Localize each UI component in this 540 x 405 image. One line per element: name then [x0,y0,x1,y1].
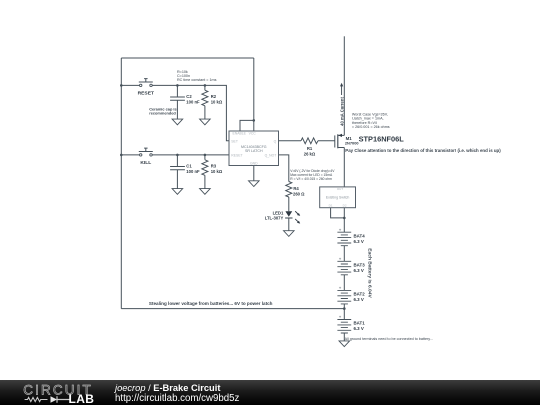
ground below U1 [249,181,260,187]
svg-text:R=10kC=100nRC time constant =: R=10kC=100nRC time constant = 1ms [177,70,217,82]
LED LED1 cathode bar [285,217,292,219]
resistor R4 [286,182,292,198]
svg-text:BAT26.3 V: BAT26.3 V [354,292,366,303]
svg-text:40 mA Current: 40 mA Current [339,97,344,126]
svg-text:KILL: KILL [140,160,151,166]
svg-text:LED1LTL-307Y: LED1LTL-307Y [265,210,284,220]
wire top rail of power-latch loop [121,57,254,59]
svg-text:C2100 nF: C2100 nF [186,94,200,105]
wire switch left pin jog [331,208,345,218]
node C2 tap [176,84,179,87]
wire left rail of power-latch loop [120,58,122,309]
battery BAT4 [337,232,351,246]
svg-text:R210 kΩ: R210 kΩ [211,94,223,105]
wire R4 to LED1 [288,197,290,211]
wire LED1 cathode to ground [288,218,290,231]
node R2 tap [204,84,207,87]
wire R3 stems [204,155,206,189]
svg-text:Each Battery is 6.04V: Each Battery is 6.04V [367,248,373,298]
node RESET rail tap [120,84,123,87]
svg-text:LAB: LAB [69,392,95,405]
wire C1 stems [176,155,178,189]
svg-text:BAT36.3 V: BAT36.3 V [354,262,366,273]
wire Q output to R1 [279,140,302,142]
pushbutton SW RESET [139,79,153,87]
svg-text:ENABLE: ENABLE [233,132,247,136]
svg-text:+: + [339,286,342,291]
node KILL rail tap [120,154,123,157]
svg-text:R126 kΩ: R126 kΩ [304,146,316,156]
resistor R2 [202,90,208,106]
svg-text:R4260 Ω: R4260 Ω [293,186,305,196]
svg-text:GND: GND [250,162,258,166]
svg-text:2N7000: 2N7000 [345,141,359,146]
svg-text:D1: D1 [329,204,333,208]
svg-text:VCC: VCC [249,132,257,136]
wire Q_NOT down to R4 [279,155,289,182]
svg-text:Pay Close attention to the dir: Pay Close attention to the direction of … [345,148,501,153]
svg-text:+: + [339,256,342,261]
svg-text:Ceramic cap isrecommended: Ceramic cap isrecommended [149,106,176,115]
wire RESET rail to SET pin [152,85,229,140]
footer bar [0,380,540,405]
svg-text:SET: SET [231,139,238,143]
CircuitLab logo wordmark [0,380,110,405]
wire BAT1 to ground [343,333,345,341]
svg-text:+: + [339,315,342,320]
capacitor C1 [170,167,185,170]
svg-text:BAT16.3 V: BAT16.3 V [354,321,366,332]
svg-text:RESET: RESET [231,153,242,157]
ground below BAT1 [339,341,350,347]
resistor R3 [202,160,208,176]
wire M1 drain up [343,36,345,135]
ground below LED1 [284,231,295,237]
node R3 tap [204,154,207,157]
wire KILL rail to RESET pin [152,154,229,156]
footer url line [115,394,239,404]
wire M1 source to existing switch [343,148,345,187]
wire R2 stems [204,85,206,119]
battery BAT3 [337,261,351,275]
wire RESET rail (left segment) [121,84,139,86]
svg-text:V=6V (-2V for Diode drop)=4VMa: V=6V (-2V for Diode drop)=4VMax current … [290,169,335,181]
wire BAT3 to BAT2 [343,275,345,291]
svg-text:STP16NF06L: STP16NF06L [359,135,405,144]
wire BAT2 to BAT1 [343,304,345,320]
transistor M1 source arrow [338,134,342,137]
note current direction arrow [341,86,343,95]
svg-text:D2: D2 [343,204,347,208]
wire ENABLE jog to VCC [240,120,254,131]
wire BAT4 to BAT3 [343,246,345,262]
svg-text:Worst Case Vgs=26V,I,latch_max: Worst Case Vgs=26V,I,latch_max = 1mA,the… [352,112,390,129]
wire VCC drop from top rail [253,58,255,131]
wire switch right pin down to BAT4 [343,208,345,233]
svg-text:Q: Q [274,139,277,143]
ground below C1 [172,189,183,195]
footer title line [115,384,220,393]
svg-text:BAT46.3 V: BAT46.3 V [354,233,366,244]
pushbutton SW KILL [139,148,153,156]
wire KILL rail (left segment) [121,154,139,156]
battery BAT2 [337,290,351,304]
logo resistor symbol [25,397,48,401]
svg-text:Existing Switch: Existing Switch [326,196,350,200]
ground below C2 [172,119,183,125]
svg-text:Q_NOT: Q_NOT [265,153,277,157]
existing switch box SW1 [320,187,356,208]
svg-text:C1100 nF: C1100 nF [186,164,200,175]
svg-text:RESET: RESET [138,90,154,96]
transistor M1 NMOS symbol [335,134,345,148]
resistor R1 [301,138,318,144]
battery BAT1 [337,320,351,334]
wire C2 stems [176,85,178,119]
LED LED1 diode triangle [285,211,292,217]
node ENABLE-VCC junction [253,119,256,122]
wire U1 GND stub [253,166,255,181]
wire bottom rail of power-latch loop [121,308,344,310]
capacitor C2 [170,97,185,100]
node battery tap junction [343,307,346,310]
svg-text:Stealing lower voltage from ba: Stealing lower voltage from batteries...… [149,301,273,306]
ground below R3 [200,189,211,195]
svg-text:R310 kΩ: R310 kΩ [211,164,223,175]
logo diode symbol [51,396,58,403]
wire R1 to gate of M1 [318,140,335,142]
node C1 tap [176,154,179,157]
svg-text:OUT: OUT [337,187,344,191]
op-amp U1 SR latch MC14043BCFG box [229,131,279,166]
ground below R2 [200,119,211,125]
LED LED1 emission arrows [295,211,300,223]
node switch pins junction [343,217,346,220]
svg-text:+: + [339,227,342,232]
svg-text:All ground terminals need to b: All ground terminals need to be connecte… [345,337,433,341]
